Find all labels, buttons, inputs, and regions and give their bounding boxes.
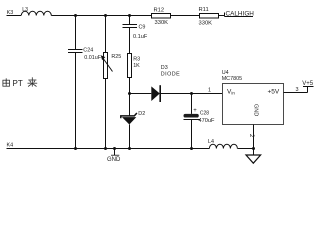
inductor L3	[21, 7, 51, 15]
wire R25 to bottom rail	[105, 79, 107, 149]
svg-text:0.01uF: 0.01uF	[84, 55, 101, 61]
node K3	[7, 10, 14, 16]
svg-text:0.1uF: 0.1uF	[133, 34, 148, 40]
svg-text:Vin: Vin	[227, 89, 235, 96]
wire	[171, 15, 200, 17]
net label CALHIGH	[225, 11, 255, 18]
svg-text:+: +	[193, 108, 197, 114]
svg-text:PT: PT	[13, 79, 23, 88]
junction at C9 branch	[128, 14, 131, 17]
junction at ground	[252, 147, 255, 150]
ground GND stub	[107, 149, 121, 164]
IC U4 MC7805	[222, 70, 284, 125]
svg-text:L3: L3	[22, 7, 28, 13]
svg-text:U4: U4	[222, 70, 229, 76]
svg-text:1K: 1K	[133, 63, 140, 69]
wire top rail left	[7, 15, 22, 17]
glyph 由	[5, 78, 7, 83]
diode D3	[151, 65, 180, 102]
wire top rail	[51, 15, 151, 17]
svg-text:MC7805: MC7805	[222, 76, 242, 82]
wire bottom rail right	[238, 148, 254, 150]
wire	[219, 15, 225, 17]
junction at C24 branch	[74, 14, 77, 17]
annotation from PT (Chinese)	[3, 77, 37, 88]
resistor R12	[152, 8, 171, 27]
svg-text:1: 1	[208, 88, 211, 94]
zener D2	[121, 94, 145, 149]
svg-text:R12: R12	[154, 8, 165, 14]
svg-text:+5V: +5V	[268, 89, 280, 96]
svg-text:330K: 330K	[155, 20, 169, 26]
junction GND stub	[113, 147, 116, 150]
net label V+5	[302, 81, 314, 87]
svg-text:L4: L4	[208, 139, 214, 145]
glyph 来	[28, 79, 36, 81]
svg-text:GND: GND	[107, 157, 121, 163]
svg-text:470uF: 470uF	[199, 118, 215, 124]
resistor R3	[128, 54, 141, 78]
svg-text:C28: C28	[200, 110, 209, 116]
svg-text:DIODE: DIODE	[161, 71, 180, 77]
wire bottom rail	[7, 148, 210, 150]
svg-text:CALHIGH: CALHIGH	[226, 11, 255, 18]
svg-text:R3: R3	[133, 57, 140, 63]
pin 1	[208, 88, 211, 94]
junction R25 bottom	[104, 147, 107, 150]
junction D2 bottom	[128, 147, 131, 150]
wire	[130, 93, 152, 95]
svg-text:R25: R25	[111, 54, 121, 60]
svg-text:R11: R11	[199, 7, 209, 13]
capacitor C24	[68, 16, 102, 62]
pin 3 wire	[284, 87, 308, 94]
svg-text:K4: K4	[7, 143, 14, 149]
wire C9 to R3	[129, 28, 131, 54]
svg-text:330K: 330K	[199, 21, 213, 27]
svg-text:3: 3	[296, 87, 299, 93]
potentiometer R25	[101, 16, 121, 79]
svg-text:D3: D3	[161, 65, 168, 71]
junction C28 bottom	[190, 147, 193, 150]
resistor R11	[199, 7, 219, 26]
ground symbol	[246, 149, 261, 164]
inductor L4	[208, 139, 237, 148]
svg-text:C24: C24	[83, 47, 93, 53]
wire D3 to U4 pin1	[160, 93, 222, 95]
junction at R25 branch	[104, 14, 107, 17]
node K4	[7, 143, 14, 149]
wire R3 to mid node	[129, 78, 131, 94]
svg-text:V+5: V+5	[302, 81, 314, 87]
svg-text:D2: D2	[138, 111, 145, 117]
junction at C28 branch	[190, 92, 193, 95]
pin 2 wire	[248, 125, 254, 149]
svg-text:GND: GND	[253, 104, 259, 116]
capacitor C28	[184, 94, 215, 149]
junction mid node	[128, 92, 131, 95]
wire C24 to bottom rail	[75, 53, 77, 149]
capacitor C9	[123, 16, 148, 41]
svg-text:C9: C9	[139, 25, 146, 31]
junction C24 bottom	[74, 147, 77, 150]
